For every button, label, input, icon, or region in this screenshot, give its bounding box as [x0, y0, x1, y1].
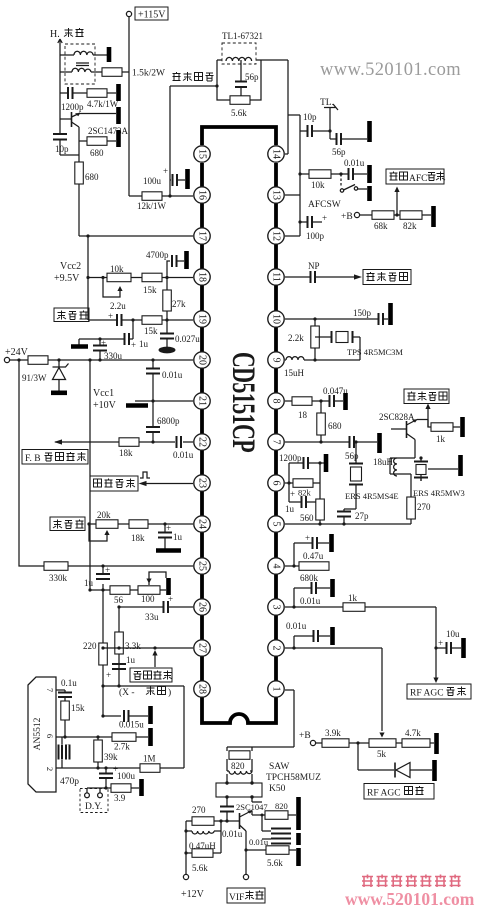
ground bar (100 pot)	[166, 578, 171, 595]
resistor 12k/1W	[129, 192, 193, 211]
pin 17	[194, 228, 210, 244]
svg-text:5k: 5k	[377, 749, 387, 759]
pin 5	[268, 516, 284, 532]
resistor 680 vertical	[75, 162, 99, 236]
svg-text:18k: 18k	[131, 533, 145, 543]
resistor 1M	[140, 754, 160, 773]
capacitor 0.047u	[319, 386, 348, 407]
capacitor 33u	[119, 594, 193, 622]
svg-text:6: 6	[45, 734, 55, 738]
svg-text:CD5151CP: CD5151CP	[225, 352, 261, 453]
VIF terminal	[243, 874, 248, 879]
ground bar (4.7k)	[434, 733, 439, 754]
resistor 3.9k	[322, 728, 369, 747]
wire +115V rail	[128, 17, 130, 196]
svg-text:3.9: 3.9	[114, 793, 126, 803]
+12V terminal	[181, 874, 205, 900]
ground bar (diode)	[432, 760, 437, 781]
wire pin4 net	[285, 565, 299, 567]
svg-text:0.01u: 0.01u	[162, 370, 183, 380]
label F.B pulse input	[22, 450, 88, 465]
svg-text:18: 18	[197, 272, 208, 282]
capacitor 0.01u (pin3)	[292, 582, 330, 609]
wire rail x184	[183, 686, 185, 768]
pin 19	[194, 311, 210, 327]
pin 11	[268, 269, 284, 285]
node 330u tap	[98, 358, 101, 361]
pin 1	[268, 681, 284, 697]
capacitor 0.1u	[56, 678, 77, 701]
pin 13	[268, 187, 284, 203]
svg-text:7: 7	[271, 440, 282, 445]
svg-text:20: 20	[197, 355, 208, 365]
transformer T1 core	[76, 63, 89, 66]
+115V supply terminal	[126, 7, 168, 21]
capacitor pair (820 bypass)	[261, 814, 292, 844]
capacitor 150p	[353, 308, 388, 325]
node pin19/27k	[165, 318, 168, 321]
wire DY net	[87, 787, 111, 789]
ground bar (82k)	[431, 206, 436, 227]
svg-text:4700p: 4700p	[146, 250, 169, 260]
svg-text:10k: 10k	[110, 264, 124, 274]
svg-text:56p: 56p	[332, 147, 346, 157]
svg-text:0.01u: 0.01u	[222, 829, 243, 839]
svg-text:10k: 10k	[311, 180, 325, 190]
label HV protection	[130, 668, 172, 682]
svg-text:100: 100	[141, 594, 155, 604]
pin 20	[194, 352, 210, 368]
pin 28	[194, 681, 210, 697]
wire Vcc1 rail	[89, 360, 91, 590]
wire pin21 net	[135, 400, 193, 402]
svg-text:100p: 100p	[306, 231, 325, 241]
wire rail x103	[102, 590, 104, 716]
svg-text:5.6k: 5.6k	[192, 863, 208, 873]
svg-text:2: 2	[45, 767, 55, 771]
capacitor 0.47u	[292, 533, 329, 568]
svg-text:TL1-67321: TL1-67321	[222, 31, 263, 41]
svg-text:+B: +B	[299, 731, 311, 741]
transistor Q1 2SC1473A	[72, 112, 129, 141]
wire pin2 net	[56, 767, 184, 769]
ground (collector)	[116, 107, 121, 124]
ground bar (1200p)	[318, 454, 326, 472]
pin 6	[268, 475, 284, 491]
resistor 1.5k/2W	[102, 68, 165, 79]
svg-text:27: 27	[197, 643, 208, 653]
capacitor 1u (pin6)	[285, 489, 322, 514]
svg-text:1M: 1M	[143, 754, 156, 764]
resistor 15k (pin19)	[142, 316, 162, 336]
svg-text:ERS 4R5MW3: ERS 4R5MW3	[413, 488, 465, 498]
svg-text:SAW: SAW	[269, 762, 289, 772]
capacitor 0.01u (pin2)	[286, 621, 330, 650]
capacitor 2.2u	[108, 301, 126, 326]
wire emitter to 680 vertical	[60, 141, 79, 162]
label Vcc2 +9.5V	[54, 261, 81, 284]
+24V terminal	[4, 347, 28, 363]
capacitor 56p (TL1)	[235, 64, 259, 96]
svg-text:10p: 10p	[55, 144, 69, 154]
svg-text:91/3W: 91/3W	[22, 373, 47, 383]
svg-text:12k/1W: 12k/1W	[137, 201, 167, 211]
pin 3	[268, 599, 284, 615]
pin 12	[268, 228, 284, 244]
svg-text:20k: 20k	[97, 510, 111, 520]
svg-text:+: +	[438, 638, 443, 648]
resistor 330k	[44, 562, 193, 583]
switch AFCSW	[308, 172, 367, 210]
wire +12V rail	[185, 821, 187, 874]
arrowhead FB input	[54, 439, 62, 444]
svg-text:ERS 4R5MS4E: ERS 4R5MS4E	[345, 491, 399, 501]
svg-text:680k: 680k	[300, 573, 319, 583]
svg-text:1u: 1u	[126, 655, 136, 665]
resistor 270 (video)	[407, 497, 431, 524]
wire pin6 net	[285, 482, 320, 484]
wire pin8 net	[285, 400, 329, 402]
svg-text:+: +	[131, 340, 136, 350]
svg-text:+: +	[290, 489, 295, 499]
capacitor 0.01u (AFC)	[344, 158, 367, 180]
wire collector 820	[252, 811, 265, 816]
svg-text:82k: 82k	[403, 221, 417, 231]
svg-text:1k: 1k	[348, 593, 358, 603]
TL trimmer symbol	[324, 104, 338, 131]
ground bar (56p video)	[377, 433, 382, 453]
SAW filter TPCH58MUZ	[216, 774, 262, 799]
svg-text:TL.: TL.	[320, 98, 334, 108]
svg-text:680: 680	[85, 172, 99, 182]
inductor 18uH	[373, 457, 415, 476]
ground bar (0.01u AFC)	[367, 165, 372, 183]
svg-text:+10V: +10V	[93, 400, 117, 411]
capacitor 1200p	[61, 87, 84, 112]
pin 27	[194, 640, 210, 656]
resistor 1k (video)	[428, 420, 460, 445]
ground (4700p)	[184, 251, 189, 269]
svg-text:AFC: AFC	[409, 174, 427, 184]
svg-text:8: 8	[271, 399, 282, 404]
wire rail x300	[288, 115, 300, 236]
svg-text:+: +	[166, 523, 171, 533]
svg-text:13: 13	[271, 190, 282, 200]
label H.output	[50, 28, 84, 40]
svg-text:+: +	[101, 338, 106, 348]
ground (zener)	[51, 390, 67, 395]
wire pin12 stub	[285, 235, 300, 237]
capacitor 330u	[93, 337, 123, 361]
resistor 5.6k (right)	[244, 846, 296, 868]
svg-text:15uH: 15uH	[284, 368, 305, 378]
pin 21	[194, 393, 210, 409]
ground bar (0.047u)	[343, 393, 348, 410]
svg-text:56p: 56p	[245, 72, 259, 82]
pin 25	[194, 558, 210, 574]
wire IC to SAW stubs	[227, 690, 294, 751]
wire pin18 net	[88, 277, 193, 279]
resistor 68k	[372, 211, 400, 231]
svg-text:14: 14	[271, 149, 282, 159]
svg-text:10: 10	[271, 314, 282, 324]
node junction pin17/rail	[86, 234, 89, 237]
potentiometer 5k	[369, 733, 402, 760]
svg-text:1u: 1u	[285, 504, 295, 514]
resistor 82k	[400, 211, 431, 231]
svg-text:1u: 1u	[139, 339, 149, 349]
svg-text:15k: 15k	[71, 703, 85, 713]
capacitor 56p (AFC)	[330, 131, 367, 157]
arrowhead RF AGC out	[433, 678, 438, 684]
node pin22/rail	[151, 440, 154, 443]
ground bar (10u)	[461, 638, 466, 658]
ground bar (resonator)	[428, 455, 461, 476]
svg-text:26: 26	[197, 602, 208, 612]
capacitor 1200p (pin6)	[279, 453, 320, 469]
label VIF input box	[227, 888, 265, 903]
wire pin5 net	[285, 523, 411, 525]
ground bar (pin21)	[126, 403, 148, 408]
wire base net	[60, 93, 87, 119]
label (X-ray)	[119, 686, 171, 698]
svg-text:+9.5V: +9.5V	[54, 273, 80, 284]
svg-text:D.Y.: D.Y.	[85, 802, 102, 812]
wire resonator bottom	[390, 474, 421, 497]
label RF AGC delay box	[364, 784, 434, 800]
ground bar (3.9)	[139, 779, 144, 796]
svg-text:12: 12	[271, 231, 282, 241]
ground bar (5.6k)	[296, 848, 301, 866]
svg-text:10u: 10u	[446, 629, 460, 639]
capacitor 1u (pin25)	[84, 564, 110, 590]
svg-text:5.6k: 5.6k	[231, 108, 247, 118]
resistor 4.7k/1W	[87, 89, 119, 109]
IC label CD5151CP	[225, 352, 261, 453]
ground bar (56p)	[367, 121, 372, 142]
ground bar (0.01u pin3)	[330, 579, 335, 597]
ground (4.7k)	[116, 84, 121, 101]
transistor Q3 2SC1047	[240, 810, 253, 874]
svg-text:+115V: +115V	[138, 10, 166, 21]
node Vcc1 tap	[88, 358, 91, 361]
svg-text:24: 24	[197, 519, 208, 529]
svg-text:4: 4	[271, 564, 282, 569]
svg-text:17: 17	[197, 231, 208, 241]
svg-text:www.520101.com: www.520101.com	[320, 60, 461, 80]
svg-text:5.6k: 5.6k	[267, 858, 283, 868]
svg-text:9: 9	[271, 358, 282, 363]
transformer T1 secondary coil	[60, 51, 109, 55]
wire pin17 net	[79, 235, 193, 237]
svg-text:+: +	[168, 594, 173, 604]
resistor 3.9	[111, 784, 139, 803]
svg-text:): )	[168, 687, 171, 698]
pin 15	[194, 146, 210, 162]
capacitor 100u (pin16)	[143, 166, 185, 186]
svg-text:0.027u: 0.027u	[175, 334, 200, 344]
resistor 1k (AGC)	[343, 593, 365, 611]
pulse symbol	[140, 472, 150, 478]
transformer TL1 dashed box	[222, 43, 256, 64]
ground bar (0.47u)	[329, 534, 334, 552]
resonator ERS4R5MS4E	[344, 442, 399, 511]
capacitor NP	[285, 261, 357, 283]
svg-text:+12V: +12V	[181, 889, 205, 900]
svg-text:68k: 68k	[374, 221, 388, 231]
svg-text:2.2u: 2.2u	[110, 301, 126, 311]
svg-text:680: 680	[328, 421, 342, 431]
pin 8	[268, 393, 284, 409]
transformer TL1 coil	[226, 57, 252, 61]
svg-text:(X -: (X -	[119, 687, 135, 698]
wire pin24 net	[89, 523, 193, 525]
svg-text:10p: 10p	[303, 112, 317, 122]
svg-text:0.47u: 0.47u	[303, 551, 324, 561]
svg-text:23: 23	[197, 478, 208, 488]
svg-text:2: 2	[271, 646, 282, 651]
svg-text:4.7k: 4.7k	[405, 728, 421, 738]
svg-text:0.015u: 0.015u	[119, 720, 144, 730]
resistor 15k (AN5512)	[61, 701, 85, 737]
ground (680)	[116, 130, 121, 147]
svg-text:7: 7	[45, 688, 55, 692]
arrow to AFC box	[394, 187, 399, 217]
capacitor 10u	[434, 629, 461, 654]
ground blob (0.027u)	[159, 347, 176, 354]
svg-text:RF AGC: RF AGC	[410, 689, 444, 699]
svg-text:1200p: 1200p	[279, 453, 302, 463]
wire pin6 net	[56, 736, 148, 738]
svg-text:F. B: F. B	[25, 454, 41, 464]
resistor 560	[300, 499, 324, 524]
capacitor 4700p	[146, 250, 184, 278]
svg-text:27p: 27p	[355, 511, 369, 521]
label video output box	[404, 389, 449, 404]
resistor 5.6k (TL1)	[230, 96, 250, 118]
wire pin7 net	[285, 441, 349, 443]
capacitor 27p	[337, 511, 369, 524]
svg-text:680: 680	[90, 148, 104, 158]
label Vcc1 +10V	[93, 388, 117, 411]
svg-text:25: 25	[197, 561, 208, 571]
svg-text:Vcc2: Vcc2	[60, 261, 81, 272]
pin 9	[268, 352, 284, 368]
svg-text:+B: +B	[341, 212, 353, 222]
pin 26	[194, 599, 210, 615]
svg-text:3.3k: 3.3k	[125, 641, 141, 651]
arrow HV protect	[152, 646, 157, 667]
svg-text:2.7k: 2.7k	[114, 742, 130, 752]
svg-text:0.01u: 0.01u	[300, 596, 321, 606]
resistor 56	[110, 586, 130, 605]
svg-text:15k: 15k	[144, 326, 158, 336]
wire pin10 net	[285, 318, 378, 320]
ground bar (1k)	[460, 417, 465, 437]
svg-text:2SC828A: 2SC828A	[379, 412, 415, 422]
svg-text:270: 270	[417, 502, 431, 512]
resistor 220	[83, 641, 107, 665]
wire video-detector net	[170, 86, 217, 196]
capacitor 0.01u (pin22)	[173, 436, 194, 460]
label audio output box	[363, 270, 411, 285]
resistor 15k (pin18)	[142, 273, 162, 295]
pin 4	[268, 558, 284, 574]
svg-text:+: +	[305, 533, 310, 543]
wire rail x119	[118, 607, 120, 686]
svg-text:+: +	[108, 311, 113, 321]
resistor 680 (emitter)	[79, 137, 116, 158]
diode AGC delay	[358, 743, 432, 778]
svg-text:www.520101.com: www.520101.com	[345, 889, 475, 907]
svg-text:0.01u: 0.01u	[173, 450, 194, 460]
svg-text:3.9k: 3.9k	[325, 728, 341, 738]
capacitor 0.01u (pin20)	[146, 360, 183, 427]
capacitor 470p pair	[59, 737, 80, 787]
capacitor 100p	[298, 213, 327, 241]
svg-text:820: 820	[275, 801, 288, 811]
svg-text:K50: K50	[269, 784, 286, 794]
svg-text:1u: 1u	[84, 578, 94, 588]
svg-text:330k: 330k	[49, 573, 68, 583]
ground bar (2.7k)	[148, 728, 153, 746]
resistor 27k	[163, 278, 186, 321]
svg-text:0.1u: 0.1u	[61, 678, 77, 688]
svg-text:15: 15	[197, 149, 208, 159]
arrow H output up	[58, 39, 62, 48]
ground bar (0.015u)	[148, 706, 153, 724]
svg-text:6: 6	[271, 481, 282, 486]
inductor 15uH	[284, 357, 305, 378]
wire 56/100 net	[90, 589, 166, 591]
resistor 3.3k	[115, 632, 141, 654]
resistor 270 (VIF)	[186, 805, 239, 825]
resistor 680 (video)	[317, 401, 342, 442]
ground bar (switch)	[367, 186, 372, 201]
capacitor 10p (AFC)	[300, 112, 332, 137]
potentiometer 20k	[87, 510, 118, 541]
pin 18	[194, 269, 210, 285]
IC CD5151CP body outline	[202, 127, 276, 723]
potentiometer 10k	[101, 264, 131, 297]
svg-text:22: 22	[197, 437, 208, 447]
svg-text:2.2k: 2.2k	[288, 333, 304, 343]
capacitor 1u (x-ray)	[106, 655, 136, 680]
svg-text:28: 28	[197, 684, 208, 694]
svg-text:56p: 56p	[345, 451, 359, 461]
svg-text:TPCH58MUZ: TPCH58MUZ	[266, 773, 321, 783]
label AFC output box	[386, 169, 445, 184]
node junction 100u	[168, 194, 171, 197]
resistor 820 (SAW)	[229, 751, 250, 771]
wire left of transformer	[59, 48, 61, 93]
resistor 18k (pin22)	[119, 438, 139, 458]
capacitor 100u (DY)	[99, 764, 136, 788]
svg-text:2SC1473A: 2SC1473A	[88, 126, 129, 136]
capacitor 1u (osc)	[79, 318, 149, 350]
label video detector	[173, 72, 214, 81]
resistor 18k (pin24)	[129, 520, 148, 543]
svg-text:1: 1	[271, 687, 282, 692]
wire 1200p loop verticals	[289, 463, 320, 499]
svg-text:+24V: +24V	[5, 347, 29, 358]
wire pin23 net with arrow	[139, 481, 194, 486]
wire left rail +24V down	[19, 360, 44, 566]
node Vcc2	[86, 276, 89, 279]
resistor 39k	[94, 735, 118, 768]
svg-text:1u: 1u	[173, 532, 183, 542]
arrow to video out	[417, 404, 431, 428]
